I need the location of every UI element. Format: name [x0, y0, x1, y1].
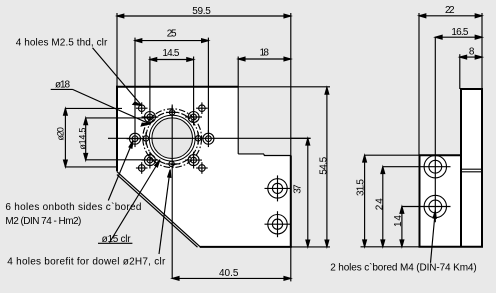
svg-text:22: 22 [445, 5, 455, 16]
svg-text:14.5: 14.5 [162, 48, 179, 59]
svg-text:ø14.5: ø14.5 [78, 128, 88, 150]
svg-text:37: 37 [292, 184, 303, 194]
svg-text:ø18: ø18 [55, 80, 70, 91]
svg-text:25: 25 [167, 28, 177, 39]
svg-text:6 holes onboth sides c`bored: 6 holes onboth sides c`bored [5, 201, 141, 213]
svg-text:14: 14 [393, 215, 404, 227]
svg-text:18: 18 [259, 48, 269, 59]
svg-text:2 holes c`bored M4 (DIN-74 Km4: 2 holes c`bored M4 (DIN-74 Km4) [330, 262, 477, 274]
svg-text:54.5: 54.5 [318, 156, 329, 174]
svg-text:8: 8 [469, 46, 475, 57]
svg-text:16.5: 16.5 [451, 27, 468, 38]
svg-text:ø15 clr: ø15 clr [102, 234, 132, 245]
svg-text:59.5: 59.5 [192, 6, 211, 17]
svg-text:31.5: 31.5 [356, 179, 367, 196]
svg-text:ø20: ø20 [55, 127, 65, 141]
svg-text:M2 (DIN 74 - Hm2): M2 (DIN 74 - Hm2) [5, 216, 81, 227]
svg-text:40.5: 40.5 [219, 268, 239, 279]
svg-text:4 holes borefit for dowel ø2H7: 4 holes borefit for dowel ø2H7, clr [7, 256, 166, 267]
svg-text:24: 24 [374, 198, 385, 210]
svg-text:4 holes M2.5 thd, clr: 4 holes M2.5 thd, clr [16, 38, 108, 49]
